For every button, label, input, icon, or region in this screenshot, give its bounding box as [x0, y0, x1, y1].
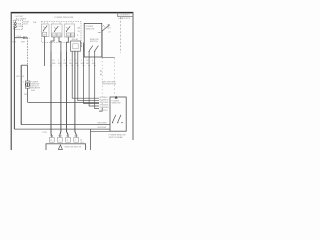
- passenger switch box: [84, 23, 102, 57]
- title block box top right: [118, 13, 134, 20]
- circuit breaker label: [31, 82, 41, 93]
- fuse F1: [14, 22, 23, 28]
- passenger switch title: [90, 39, 99, 43]
- wire from right switch: [102, 31, 115, 57]
- wire stub w1: [51, 37, 54, 52]
- svg-text:G/R: G/R: [92, 63, 96, 65]
- svg-text:6: 6: [60, 22, 61, 24]
- wire faint drop to lock box: [114, 58, 116, 96]
- bundle wire 4b: [75, 51, 76, 137]
- bundle wire 2: [60, 52, 61, 138]
- wire below breaker: [27, 88, 29, 102]
- bundle wire 3: [67, 52, 69, 138]
- bend label: [98, 123, 108, 130]
- master switch title: [54, 17, 74, 19]
- svg-text:BLU/YEL: BLU/YEL: [100, 110, 109, 112]
- svg-text:COURTESY: COURTESY: [118, 14, 130, 16]
- svg-text:DISTRIBUTION: DISTRIBUTION: [102, 84, 117, 86]
- junction dots right: [100, 70, 101, 71]
- box bottom feed: [91, 130, 111, 132]
- fuse block dashed box: [14, 20, 23, 29]
- wire left branch vertical: [20, 65, 22, 124]
- master switch dashed box: [42, 21, 81, 42]
- wire breaker drop: [27, 65, 29, 81]
- svg-text:POWER WINDOWS: POWER WINDOWS: [54, 17, 74, 19]
- left bend 1: [21, 124, 110, 126]
- right switch SW5: [98, 24, 109, 32]
- wire main left vertical: [13, 28, 15, 130]
- wire stub w2: [59, 37, 61, 52]
- switch SW2b label box: [57, 33, 61, 37]
- connector ticks on wires: [50, 65, 95, 67]
- switch SW1: [43, 26, 47, 32]
- right switch labels: [107, 27, 111, 34]
- bundle wire 1: [50, 52, 53, 138]
- switch SW2 label box: [52, 33, 56, 37]
- below box label: [109, 135, 126, 139]
- svg-text:SWITCH: SWITCH: [90, 41, 98, 43]
- wire stub w3: [67, 37, 69, 52]
- pin label row above bundle: [52, 60, 96, 65]
- dashed firewall line: [120, 17, 122, 53]
- svg-text:9: 9: [72, 22, 73, 24]
- left bend 2: [14, 128, 110, 130]
- passenger switch name top: [86, 26, 95, 30]
- svg-text:BREAKER: BREAKER: [31, 87, 41, 90]
- left of connector label: [80, 140, 84, 144]
- svg-text:WINDOW: WINDOW: [86, 28, 95, 30]
- wire branch horizontal: [21, 64, 27, 66]
- svg-text:BOX: BOX: [23, 24, 28, 26]
- bundle wire 7 bend: [89, 52, 99, 106]
- wire fuse stub: [14, 20, 16, 22]
- connector pin boxes: [49, 137, 78, 142]
- lower left label: [42, 132, 48, 134]
- switch SW1 label box: [42, 32, 46, 36]
- circuit breaker CB1: [25, 81, 30, 88]
- bundle wire 8 bend: [95, 52, 99, 109]
- svg-text:SWITCH REAR: SWITCH REAR: [109, 136, 124, 139]
- relay box M: [71, 41, 81, 51]
- bottom connector box: [46, 144, 86, 152]
- lock switch contacts: [112, 115, 123, 123]
- svg-text:WHT/RED: WHT/RED: [98, 123, 108, 125]
- svg-text:G/W: G/W: [80, 63, 84, 65]
- svg-text:ALL TIMES: ALL TIMES: [16, 17, 27, 20]
- wire breaker feed horizontal: [28, 101, 99, 103]
- wire stub w4: [71, 43, 73, 52]
- note text right: [102, 82, 117, 86]
- svg-text:W/B: W/B: [24, 94, 28, 96]
- note HOT AT ALL TIMES top left: [16, 15, 27, 20]
- svg-text:WINDOW MOTOR: WINDOW MOTOR: [65, 147, 82, 149]
- svg-text:FUSE: FUSE: [18, 26, 24, 28]
- box drop wire: [90, 129, 92, 150]
- svg-text:LAMPS SYS: LAMPS SYS: [118, 17, 130, 20]
- switch SW2: [54, 26, 58, 32]
- svg-text:W: W: [22, 76, 24, 78]
- bundle wire 5 bend: [78, 52, 99, 101]
- cell pin numbers: [44, 22, 73, 24]
- wire codes above pin boxes: [50, 136, 78, 138]
- border frame top: [11, 12, 134, 14]
- lock box interior label: [112, 101, 121, 105]
- connector arrow on box: [115, 96, 118, 99]
- fuse label: [23, 22, 29, 26]
- svg-text:RELAY: RELAY: [72, 38, 79, 41]
- door lock switch box tall: [110, 97, 126, 131]
- passenger box pin labels: [77, 27, 81, 51]
- svg-text:G/O: G/O: [80, 142, 84, 144]
- bundle wire 6 bend: [83, 52, 99, 104]
- switch SW3: [66, 26, 70, 32]
- svg-text:W/B: W/B: [12, 42, 16, 44]
- passenger switch contacts: [89, 46, 99, 52]
- border frame left: [10, 12, 12, 150]
- switch cell box 1: [42, 24, 49, 37]
- wire dashed drop: [27, 38, 29, 65]
- svg-text:BLU/RED: BLU/RED: [100, 99, 109, 101]
- switch SW3b label box: [71, 33, 75, 37]
- connector symbol: [58, 145, 62, 149]
- switch SW3 label box: [66, 33, 70, 37]
- svg-text:5: 5: [47, 22, 48, 24]
- svg-text:BLK/WHT: BLK/WHT: [98, 127, 108, 129]
- svg-text:WINDOW: WINDOW: [112, 103, 121, 105]
- switch cell box 3: [64, 24, 74, 37]
- inline connector C1: [23, 37, 25, 39]
- svg-text:4: 4: [52, 22, 53, 24]
- connector label box left: [76, 43, 81, 47]
- svg-text:3: 3: [44, 22, 45, 24]
- bundle wire 4 bend: [72, 52, 99, 99]
- wire stub w0: [44, 36, 46, 66]
- border frame right: [132, 12, 134, 140]
- svg-text:W/R: W/R: [21, 42, 25, 44]
- wire SW5 dashed down bend: [101, 58, 103, 108]
- wire stub w6: [82, 43, 84, 52]
- svg-text:7: 7: [66, 22, 67, 24]
- wire jumper horizontal: [14, 37, 27, 39]
- staircase labels: [100, 97, 110, 112]
- switch cell box 2: [51, 24, 62, 37]
